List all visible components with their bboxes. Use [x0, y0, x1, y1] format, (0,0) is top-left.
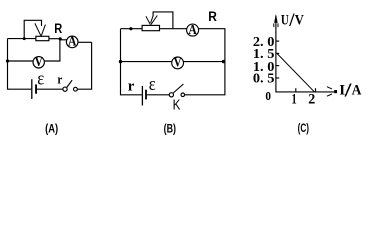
svg-text:V: V [174, 56, 182, 71]
svg-text:r: r [128, 79, 135, 95]
svg-text:V: V [295, 13, 304, 29]
svg-text:0. 5: 0. 5 [253, 72, 275, 87]
svg-text:(C): (C) [298, 121, 309, 135]
svg-text:A: A [68, 35, 77, 50]
svg-text:(B): (B) [164, 122, 176, 136]
svg-text:A: A [352, 82, 362, 98]
svg-text:1: 1 [292, 91, 297, 107]
svg-text:R: R [208, 9, 217, 24]
svg-text:(A): (A) [45, 121, 58, 135]
svg-text:R: R [54, 21, 62, 36]
svg-text:2: 2 [308, 91, 315, 107]
svg-text:o: o [265, 85, 271, 104]
svg-text:ε: ε [37, 69, 44, 90]
svg-text:A: A [188, 23, 197, 38]
svg-text:r: r [57, 71, 62, 86]
svg-text:K: K [173, 98, 181, 114]
svg-text:U: U [281, 13, 289, 29]
svg-text:ε: ε [149, 74, 156, 95]
